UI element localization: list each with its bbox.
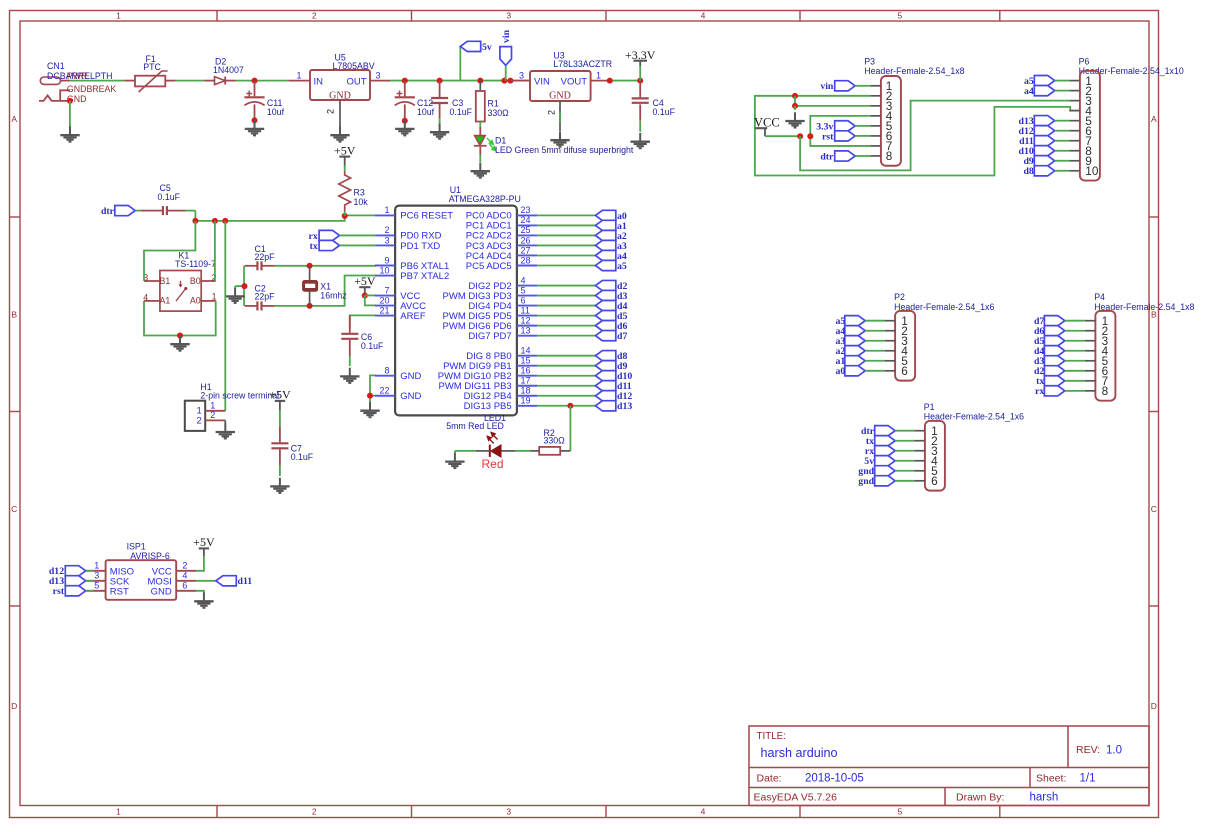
svg-text:0.1uF: 0.1uF [158,192,181,202]
wire U1 to a5 [537,265,595,267]
pin ISP1.1 MISO [86,561,134,578]
svg-text:5: 5 [521,285,526,295]
isp header ISP1 AVRISP-6 [106,541,177,600]
svg-text:330Ω: 330Ω [488,108,510,118]
net flag a1 P2 [836,356,885,368]
net flag a3 [595,240,615,250]
svg-text:1: 1 [596,70,601,80]
ground LED1 [445,451,464,468]
net flag a4 P6 [1024,86,1069,97]
svg-text:B1: B1 [160,276,171,286]
svg-text:gnd: gnd [858,476,874,487]
pin U1.21 AREF [375,305,426,322]
resistor R3 10k [339,172,368,216]
wire C2 to XTAL2 pin10 [275,276,376,309]
net flag a5 P2 [836,316,885,328]
net flag 5v P1 [864,456,914,468]
svg-text:18: 18 [521,386,531,396]
svg-text:d13: d13 [617,401,632,412]
svg-text:P1: P1 [924,402,935,412]
svg-text:8: 8 [1102,384,1109,398]
svg-text:IN: IN [314,76,324,87]
wire U1 to a4 [537,254,595,256]
svg-text:4: 4 [521,275,526,285]
svg-text:10: 10 [1085,164,1099,178]
net flag d13 isp [49,576,94,588]
svg-text:8: 8 [384,366,389,376]
regulator U3 L78L33ACZTR [510,51,612,102]
svg-text:ISP1: ISP1 [127,541,146,551]
net flag d3 [595,290,615,300]
pin ISP1.2 VCC [152,561,196,578]
net flag d9 P6 [1023,156,1069,168]
switch K1 TS-1109-7 [143,251,216,312]
ground U1 [360,402,379,417]
svg-text:6: 6 [901,364,908,378]
pin U1.18 DIG12 PB4 [464,386,537,403]
svg-text:1N4007: 1N4007 [213,65,244,75]
pin U1.16 PWM DIG10 PB2 [438,366,537,383]
pin U1.7 VCC [375,285,421,302]
svg-text:330Ω: 330Ω [544,435,566,445]
pin U1.5 PWM DIG3 PD3 [443,285,537,302]
svg-text:P2: P2 [894,292,905,302]
svg-text:2-pin screw terminal: 2-pin screw terminal [200,390,279,400]
diode D2 1N4007 [205,56,244,84]
svg-text:LED Green 5mm difuse superbrig: LED Green 5mm difuse superbright [495,145,634,155]
wire ISP1 MOSI to d11 [196,580,216,582]
svg-text:P6: P6 [1079,57,1090,67]
ground C7 [270,478,289,493]
pin U1.14 DIG 8 PB0 [466,345,537,362]
pin U1.19 DIG13 PB5 [464,396,537,413]
pin U1.8 GND [375,366,422,383]
svg-text:C: C [11,504,17,514]
svg-text:16mhz: 16mhz [320,290,346,300]
pin ISP1.6 GND [151,581,196,598]
pin U1.23 PC0 ADC0 [466,205,537,222]
header P2 Header-Female-2.54_1x6 [885,292,995,380]
wire d13 to R2 [569,406,571,451]
svg-text:L78L33ACZTR: L78L33ACZTR [553,59,612,69]
net flag d12 [595,391,615,401]
ground CN1 [60,127,79,142]
svg-text:13: 13 [521,325,531,335]
pin U1.26 PC3 ADC3 [466,235,537,252]
wire U1 to d11 [537,385,595,387]
ground K1 [170,336,189,351]
svg-text:PC5 ADC5: PC5 ADC5 [466,261,512,272]
svg-text:TITLE:: TITLE: [757,731,786,742]
net flag d9 [595,361,615,371]
wire U1 to a2 [537,234,595,236]
svg-text:10uf: 10uf [417,107,435,117]
net flag 3.3v P3 [816,121,870,133]
svg-text:7: 7 [384,285,389,295]
svg-text:28: 28 [521,255,531,265]
wire F1 to D2 [176,80,205,82]
ground U3 [550,132,569,147]
header P1 Header-Female-2.54_1x6 [914,402,1024,491]
net flag d12 P6 [1019,126,1070,138]
svg-text:GNDBREAK: GNDBREAK [67,84,117,94]
net flag d11 P6 [1019,136,1069,148]
svg-text:PB7 XTAL2: PB7 XTAL2 [400,271,449,282]
svg-text:10uf: 10uf [267,107,285,117]
mcu U1 ATMEGA328P-PU body [395,185,521,415]
wire U5 out rail [390,78,530,84]
net flag d4 P4 [1034,346,1085,358]
svg-text:1: 1 [94,561,99,571]
pin U1.15 PWM DIG9 PB1 [443,356,537,373]
svg-text:PD1 TXD: PD1 TXD [400,241,440,252]
wire P3.3 to ground [792,96,870,110]
net flag a5 [595,260,615,270]
fuse F1 PTC [125,54,176,92]
pin U1.22 GND [375,386,422,403]
wire VCC loop to P6.3 [800,101,1065,171]
svg-text:2018-10-05: 2018-10-05 [805,773,864,785]
svg-text:A1: A1 [160,296,171,306]
wire U1 to a0 [537,214,595,216]
net flag d7 [595,331,615,341]
pin ISP1.5 RST [86,581,129,598]
pin U1.28 PC5 ADC5 [466,255,537,272]
svg-text:B0: B0 [190,276,201,286]
svg-text:Red: Red [482,457,504,471]
svg-text:0.1uF: 0.1uF [291,452,314,462]
wire U1 pin19 to d13 and R2 [537,403,595,409]
svg-text:a0: a0 [836,366,846,377]
capacitor C4 0.1uF [632,81,676,132]
resistor R1 330 [476,81,509,136]
svg-text:3: 3 [519,70,524,80]
svg-text:2: 2 [547,110,557,115]
ground D1 [471,163,490,178]
svg-text:REV:: REV: [1076,744,1100,756]
capacitor C1 22pF [245,244,276,270]
net flag vin P3 [820,81,870,92]
wire U1 to d5 [537,315,595,317]
pin U1.3 PD1 TXD [375,235,440,252]
svg-text:8: 8 [886,149,893,163]
svg-text:A: A [11,114,17,124]
svg-text:VIN: VIN [534,77,550,88]
crystal X1 16mhz [303,266,347,306]
wire U1 to d4 [537,305,595,307]
net flag rx P1 [865,446,915,458]
wire D2 to U5 pin1 [236,78,289,84]
svg-text:vin: vin [501,29,512,43]
wire U1 to a1 [537,224,595,226]
svg-text:+5V: +5V [193,535,215,549]
svg-text:dtr: dtr [820,151,834,162]
svg-text:1: 1 [116,807,121,817]
svg-text:a5: a5 [617,261,627,272]
pin U1.9 PB6 XTAL1 [375,255,449,272]
title block [749,726,1149,806]
svg-text:Header-Female-2.54_1x8: Header-Female-2.54_1x8 [864,66,964,76]
wire K1 pins 4-1 to ground [144,301,216,339]
svg-text:rst: rst [822,131,834,142]
LED LED1 red [446,413,539,471]
svg-text:Sheet:: Sheet: [1036,772,1066,784]
svg-text:GND: GND [400,391,421,402]
ground U5 [330,127,349,142]
pin ISP1.3 SCK [86,571,130,588]
capacitor C7 0.1uF [271,427,313,476]
pin U3.1 line [591,70,610,80]
net flag a3 P2 [836,336,885,348]
svg-text:24: 24 [521,215,531,225]
svg-text:ATMEGA328P-PU: ATMEGA328P-PU [449,194,521,204]
svg-text:1: 1 [116,11,121,21]
pin U1.2 PD0 RXD [375,225,442,242]
svg-text:22pF: 22pF [255,292,276,302]
svg-text:26: 26 [521,235,531,245]
capacitor C12 10uf [395,81,435,121]
wire C1-C2 left junction [235,266,247,306]
net flag a2 [595,230,615,240]
node C11 ground junction [252,117,258,123]
svg-text:0.1uF: 0.1uF [361,341,384,351]
svg-text:DIG13 PB5: DIG13 PB5 [464,401,512,412]
wire CN1 GND to ground [67,98,73,127]
svg-text:d11: d11 [238,576,253,587]
pin U1.12 PWM DIG6 PD6 [443,315,537,332]
wire U3 out to 3.3V [607,78,643,84]
power +5V R3 [334,143,356,171]
ground C3 [430,124,449,139]
net flag d12 isp [49,566,94,578]
svg-text:1: 1 [297,70,302,80]
net flag a4 P2 [836,326,885,338]
net flag d10 P6 [1019,146,1070,158]
power +5V ISP1 [193,535,215,571]
net flag d5 [595,311,615,321]
svg-text:0.1uF: 0.1uF [653,107,676,117]
U5 labels [333,53,375,71]
svg-text:AVRISP-6: AVRISP-6 [130,551,170,561]
net flag rx P4 [1035,386,1085,398]
wire K1 pin2 to reset [214,221,216,281]
wire vin branch [505,65,507,80]
net flag a2 P2 [836,346,885,358]
net flag rst P3 [822,131,870,143]
svg-text:21: 21 [379,305,389,315]
ground C4 [631,133,650,148]
svg-text:vin: vin [820,81,834,92]
svg-text:P4: P4 [1094,292,1105,302]
pin U1.27 PC4 ADC4 [466,245,537,262]
svg-text:D: D [11,701,17,711]
node C12 ground junction [402,118,408,124]
svg-text:11: 11 [521,305,530,315]
svg-text:5: 5 [94,581,99,591]
svg-text:GND: GND [549,91,571,102]
svg-text:DIG7 PD7: DIG7 PD7 [468,331,511,342]
svg-text:0.1uF: 0.1uF [450,107,473,117]
svg-text:2: 2 [182,561,187,571]
power +5V VCC MCU [354,274,376,299]
net flag d10 [595,371,615,381]
svg-text:17: 17 [521,376,531,386]
ground C11 [245,120,264,135]
svg-text:16: 16 [521,366,531,376]
net flag a1 [595,220,615,230]
svg-text:27: 27 [521,245,531,255]
ground P3 [785,112,804,127]
wire U1 to d12 [537,395,595,397]
svg-text:harsh: harsh [1030,792,1059,804]
svg-text:2: 2 [197,415,202,426]
power +3.3V [625,48,656,81]
svg-text:GND: GND [151,586,172,597]
net flag d8 P6 [1023,166,1069,178]
svg-text:6: 6 [931,474,938,488]
pin U3.2 GND line [547,101,561,131]
svg-text:5: 5 [898,807,903,817]
svg-text:14: 14 [521,345,531,355]
header P6 Header-Female-2.54_1x10 [1069,57,1183,181]
wire P3.4 P3.7 VCC [807,116,870,146]
svg-text:3: 3 [506,807,511,817]
svg-text:2: 2 [312,11,317,21]
wire U1 to d10 [537,375,595,377]
svg-text:3: 3 [375,70,380,80]
svg-text:GND: GND [329,91,351,102]
power VCC symbol [754,115,803,139]
svg-text:10: 10 [379,265,389,275]
net flag gnd P1 [858,476,914,488]
svg-text:12: 12 [521,315,531,325]
svg-text:5: 5 [898,11,903,21]
wire P6.3 stub [1065,100,1070,102]
net flag gnd P1 [858,466,914,478]
capacitor C5 0.1uF [135,183,195,215]
svg-text:22pF: 22pF [255,252,276,262]
svg-text:15: 15 [521,356,531,366]
svg-text:3: 3 [384,235,389,245]
net flag a0 P2 [836,366,885,378]
svg-text:1: 1 [384,205,389,215]
capacitor C6 0.1uF [341,315,384,366]
net flag d8 [595,351,615,361]
net flag dtr reset [115,206,135,216]
wire reset rail [192,211,376,224]
wire GND pins 8 22 [367,375,376,402]
ground ISP1 [194,593,213,608]
net flag a5 P6 [1024,76,1069,88]
net flag 5v [460,41,492,52]
pin U1.24 PC1 ADC1 [466,215,537,232]
net flag tx P1 [866,436,914,448]
header P4 Header-Female-2.54_1x8 [1085,292,1195,400]
net flag d11 [595,381,615,391]
svg-text:rst: rst [53,586,65,597]
net flag d7 P4 [1034,316,1085,328]
power +5V C7 [269,387,291,427]
net flag rst isp [53,586,94,598]
pin U1.1 PC6 RESET [375,205,453,222]
net flag d6 [595,321,615,331]
svg-text:dtr: dtr [101,206,115,217]
svg-text:6: 6 [521,295,526,305]
svg-text:P3: P3 [864,57,875,67]
net flag a4 [595,250,615,260]
svg-text:d8: d8 [1023,166,1033,177]
svg-text:RST: RST [110,586,129,597]
net flag tx [310,240,376,252]
svg-text:4: 4 [701,11,706,21]
pin ISP1.4 MOSI [148,571,196,588]
svg-text:4: 4 [701,807,706,817]
svg-text:4: 4 [182,571,187,581]
net flag a0 [595,210,615,220]
svg-text:3: 3 [506,11,511,21]
svg-text:1.0: 1.0 [1106,744,1122,756]
wire VCC to AVCC pin20 [365,296,376,306]
ground H1 [216,423,235,438]
wire U1 to d6 [537,325,595,327]
pin U1.13 DIG7 PD7 [468,325,537,342]
pin U1.20 AVCC [375,295,426,312]
wire H1 pin2 to ground [224,420,226,424]
ground C1 C2 [225,286,244,303]
pin U1.4 DIG2 PD2 [468,275,537,292]
svg-text:+5V: +5V [334,143,356,157]
svg-text:A: A [1151,114,1157,124]
net flag d13 P6 [1019,116,1070,128]
svg-text:2: 2 [312,807,317,817]
net flag d5 P4 [1034,336,1085,348]
svg-text:10k: 10k [354,197,369,207]
net flag d2 [595,280,615,290]
svg-text:rx: rx [1035,386,1044,397]
svg-text:9: 9 [384,255,389,265]
wire ISP1 GND [196,591,204,594]
pin U1.10 PB7 XTAL2 [375,265,449,282]
svg-text:3: 3 [94,571,99,581]
svg-text:+5V: +5V [269,387,291,401]
svg-text:+3.3V: +3.3V [625,48,656,62]
net flag dtr P1 [861,426,914,438]
wire CN1 to F1 [70,80,125,82]
svg-text:1: 1 [210,400,215,410]
svg-text:5v: 5v [482,42,492,53]
svg-text:1/1: 1/1 [1080,773,1096,785]
wire reset rail to H1 [224,221,226,411]
net flag d3 P4 [1034,356,1085,368]
svg-text:Drawn By:: Drawn By: [956,791,1004,803]
svg-text:Date:: Date: [757,772,782,784]
net flag tx P4 [1036,376,1085,388]
wire AREF to C6 [350,315,376,328]
ground C12 [395,120,414,135]
svg-text:C: C [1151,504,1157,514]
wire 5v branch [459,46,461,80]
net flag d13 [595,401,615,411]
svg-text:2: 2 [384,225,389,235]
pin U1.11 PWM DIG5 PD5 [443,305,537,322]
wire U1 to d9 [537,365,595,367]
svg-text:AREF: AREF [400,311,426,322]
connector CN1 DCBARRELPTH [39,61,116,104]
capacitor C2 22pF [245,283,276,310]
wire U1 to d7 [537,335,595,337]
wire VCC to pin7 [365,294,376,296]
svg-text:B: B [11,309,17,319]
